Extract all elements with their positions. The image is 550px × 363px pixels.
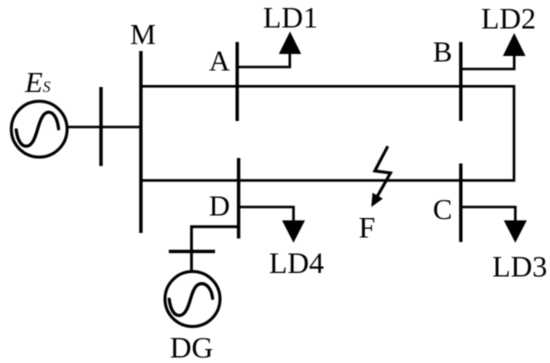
svg-text:F: F (359, 212, 376, 245)
svg-text:M: M (130, 19, 156, 51)
svg-text:D: D (209, 191, 230, 223)
svg-text:A: A (209, 46, 230, 78)
svg-text:LD4: LD4 (269, 247, 324, 280)
svg-text:LD1: LD1 (263, 2, 318, 35)
svg-text:LD3: LD3 (492, 251, 547, 284)
svg-text:C: C (433, 194, 452, 226)
svg-text:B: B (433, 37, 452, 69)
svg-text:DG: DG (170, 332, 213, 363)
svg-text:LD2: LD2 (481, 3, 536, 36)
